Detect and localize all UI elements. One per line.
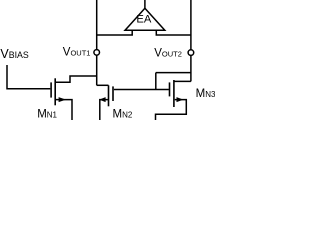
node VOUT2 — [188, 50, 194, 56]
wire VOUT1 net vertical — [96, 0, 98, 85]
wire EA left input — [97, 30, 133, 35]
op-amp EA — [125, 8, 165, 30]
wire VOUT2 net vertical — [190, 0, 192, 81]
svg-text:VOUT2: VOUT2 — [154, 48, 182, 60]
wire EA right input — [156, 30, 191, 35]
transistor MN3 — [170, 80, 184, 107]
wire gate tap vertical — [155, 73, 157, 90]
svg-text:VBIAS: VBIAS — [0, 47, 29, 61]
transistor MN2 — [99, 85, 113, 106]
svg-text:EA: EA — [136, 14, 151, 26]
transistor MN1 — [51, 78, 66, 105]
svg-text:VOUT1: VOUT1 — [63, 47, 91, 59]
wire MN1 source down — [56, 100, 72, 120]
svg-text:MN2: MN2 — [113, 109, 133, 120]
wire MN3 drain — [174, 80, 191, 82]
svg-text:MN3: MN3 — [196, 88, 215, 100]
wire MN2 source down — [100, 100, 108, 120]
wire MN2 drain horizontal — [97, 84, 109, 86]
wire EA output stub — [144, 0, 146, 9]
wire MN1 drain step — [56, 76, 97, 82]
wire MN2-MN3 gate rail — [114, 89, 169, 91]
wire MN3 source down — [156, 100, 187, 120]
wire feedback rail — [156, 72, 191, 74]
node VOUT1 — [94, 50, 100, 56]
wire VBIAS to MN1 gate — [7, 65, 50, 89]
svg-text:MN1: MN1 — [37, 109, 57, 120]
